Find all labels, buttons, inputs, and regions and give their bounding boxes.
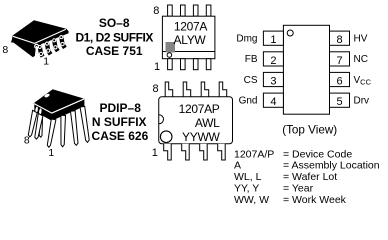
svg-text:D1, D2 SUFFIX: D1, D2 SUFFIX — [75, 30, 153, 44]
svg-text:(Top View): (Top View) — [282, 124, 337, 137]
svg-text:8: 8 — [336, 34, 342, 46]
bottom pins — [168, 59, 173, 70]
svg-text:SO–8: SO–8 — [99, 16, 130, 30]
pin1 circle — [160, 131, 172, 143]
SO-8 marking diagram — [162, 5, 215, 70]
svg-text:FB: FB — [245, 54, 258, 65]
top pins — [168, 5, 173, 16]
svg-text:NC: NC — [354, 54, 368, 65]
svg-text:1: 1 — [152, 147, 158, 159]
pin1 circle — [167, 53, 172, 58]
svg-text:8: 8 — [24, 135, 30, 147]
legend: year — [234, 183, 314, 195]
svg-text:6: 6 — [336, 75, 342, 87]
svg-text:3: 3 — [270, 75, 276, 87]
PDIP-8 package 3D drawing — [28, 89, 89, 147]
left edge notch — [159, 115, 164, 124]
svg-text:4: 4 — [270, 96, 276, 108]
pin 2 box — [263, 52, 283, 67]
pin 5 box — [330, 93, 350, 108]
PDIP-8 marking diagram — [159, 82, 233, 160]
SO-8 pin 8 label — [2, 44, 8, 56]
legend: assembly location — [234, 160, 380, 172]
SO-8 case text — [75, 16, 153, 58]
svg-text:1207A/P: 1207A/P — [234, 148, 274, 160]
svg-text:5: 5 — [336, 96, 342, 108]
svg-text:ALYW: ALYW — [174, 33, 207, 47]
svg-text:N SUFFIX: N SUFFIX — [92, 115, 147, 129]
svg-text:= Work Week: = Work Week — [283, 194, 347, 206]
legend: wafer lot — [234, 171, 337, 183]
svg-text:= Wafer Lot: = Wafer Lot — [283, 171, 337, 183]
svg-text:CS: CS — [244, 75, 258, 86]
svg-text:Drv: Drv — [354, 96, 370, 107]
svg-text:Gnd: Gnd — [239, 96, 258, 107]
svg-text:1207A: 1207A — [174, 20, 207, 34]
pin 8 box — [330, 31, 350, 46]
svg-text:= Year: = Year — [283, 183, 314, 195]
pin 3 box — [263, 72, 283, 87]
pinout body U1 — [283, 25, 329, 114]
body — [34, 89, 85, 121]
svg-text:2: 2 — [270, 55, 276, 67]
svg-text:1: 1 — [154, 61, 160, 73]
body — [159, 97, 233, 144]
svg-text:PDIP–8: PDIP–8 — [100, 101, 142, 115]
svg-text:WW, W: WW, W — [234, 194, 269, 206]
svg-text:AWL: AWL — [195, 116, 220, 130]
svg-text:YYWW: YYWW — [182, 130, 220, 144]
pin1 gray marker — [166, 42, 176, 53]
svg-text:1: 1 — [48, 147, 54, 159]
SO-8 package 3D drawing — [11, 20, 69, 57]
legend: work week — [234, 194, 347, 206]
svg-text:8: 8 — [2, 44, 8, 56]
bottom pins — [164, 144, 172, 160]
svg-text:CASE 751: CASE 751 — [86, 44, 143, 58]
svg-text:HV: HV — [354, 34, 368, 45]
top pins — [165, 82, 173, 97]
pin 1 box — [263, 31, 283, 46]
pin 4 box — [263, 93, 283, 108]
front legs — [47, 119, 56, 147]
pin 7 box — [330, 52, 350, 67]
svg-text:1207AP: 1207AP — [179, 102, 220, 116]
PDIP-8 case text — [92, 101, 149, 143]
legend: device code — [234, 148, 352, 160]
svg-text:8: 8 — [152, 83, 158, 95]
body — [162, 16, 215, 59]
left legs — [28, 110, 37, 137]
svg-text:YY, Y: YY, Y — [234, 183, 259, 195]
svg-text:1: 1 — [270, 34, 276, 46]
svg-text:1: 1 — [43, 56, 49, 68]
svg-text:CASE 626: CASE 626 — [92, 129, 149, 143]
svg-text:= Assembly Location: = Assembly Location — [283, 160, 380, 172]
svg-text:= Device Code: = Device Code — [283, 148, 352, 160]
background leg — [39, 119, 42, 137]
svg-text:8: 8 — [153, 5, 159, 17]
pin 6 box — [330, 72, 350, 87]
svg-text:A: A — [234, 160, 241, 172]
svg-text:Dmg: Dmg — [236, 34, 257, 45]
svg-text:VCC: VCC — [354, 75, 372, 87]
svg-text:7: 7 — [336, 55, 342, 67]
svg-text:WL, L: WL, L — [234, 171, 262, 183]
